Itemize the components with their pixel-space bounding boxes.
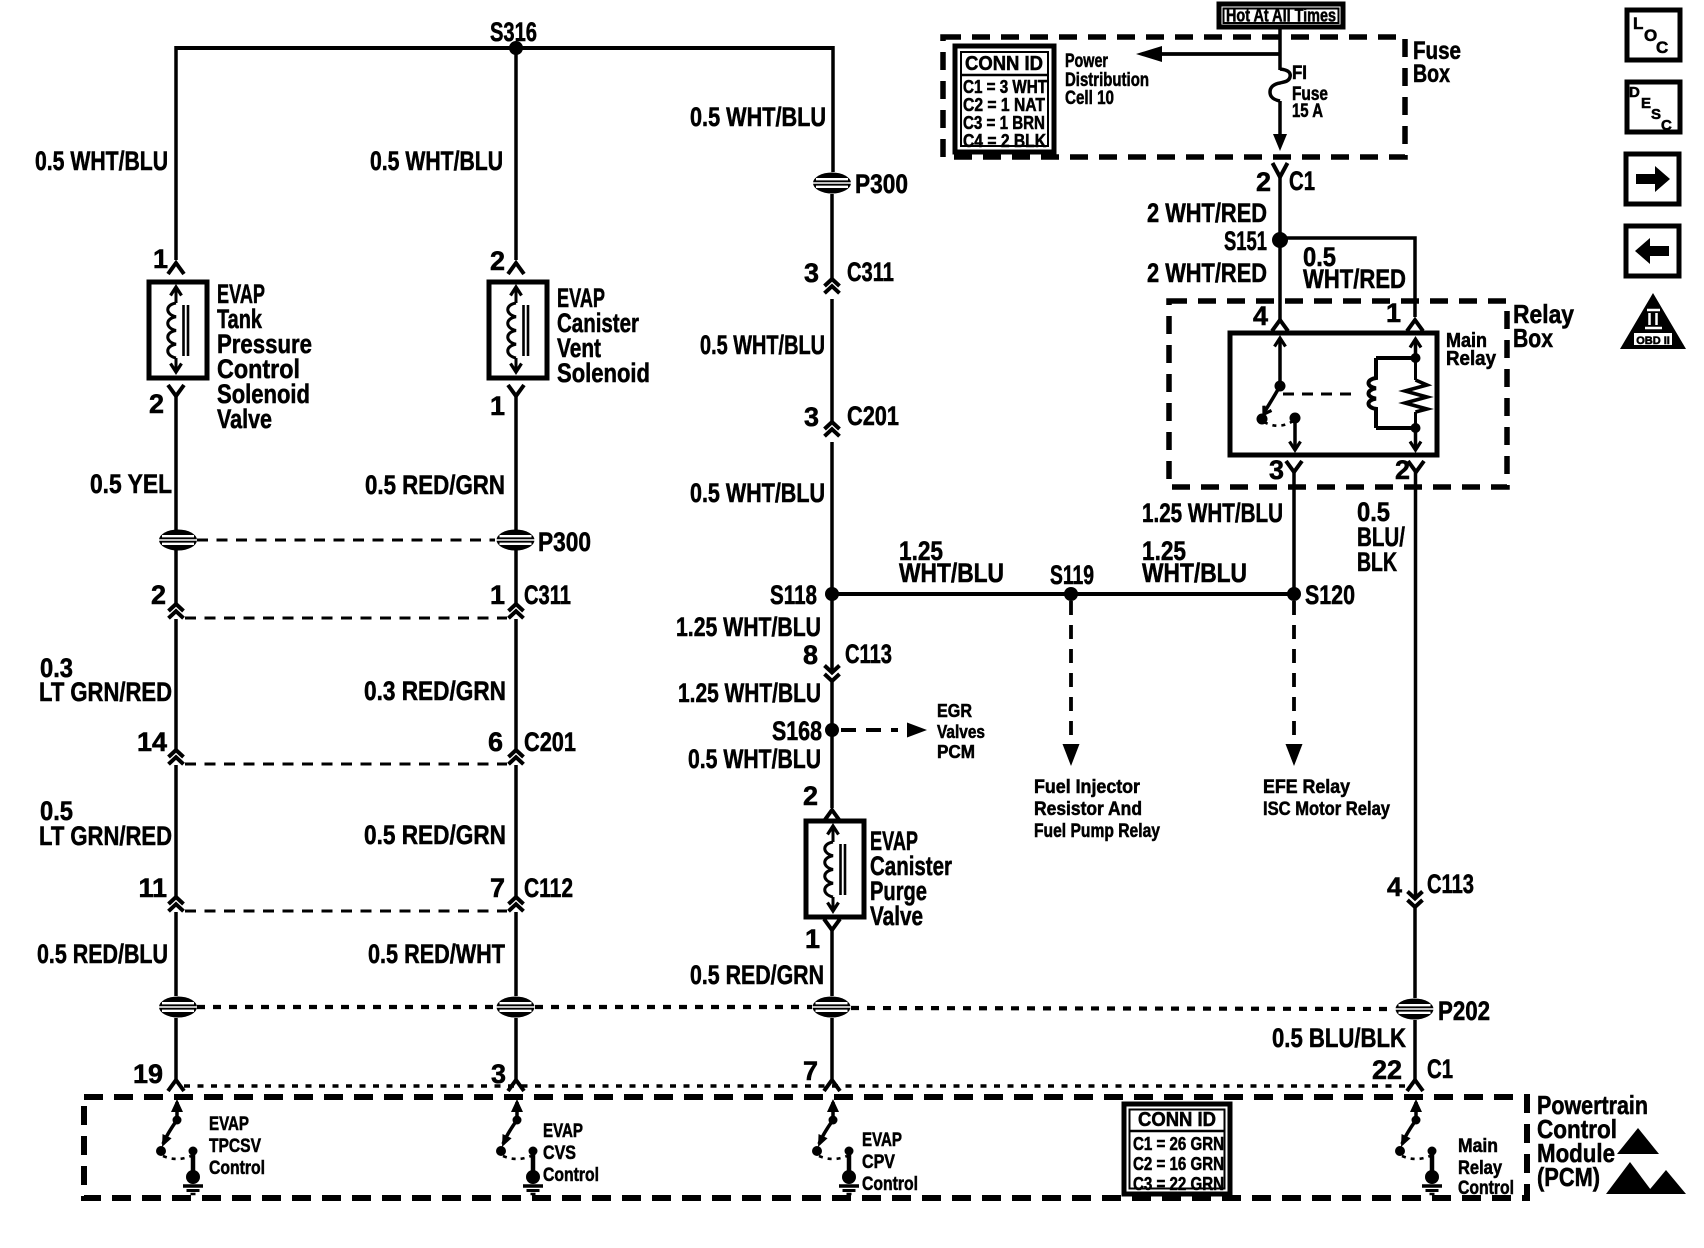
svg-text:2: 2 (1256, 167, 1271, 197)
svg-text:CVS: CVS (543, 1143, 576, 1164)
svg-text:S151: S151 (1224, 226, 1267, 256)
svg-text:C113: C113 (845, 639, 892, 669)
dashed line pairing left connector with P300 (197, 539, 495, 542)
wire 2 WHT/RED from C1 to S151 (1278, 176, 1282, 320)
svg-text:C: C (1661, 117, 1672, 134)
svg-text:1.25 WHT/BLU: 1.25 WHT/BLU (676, 612, 821, 642)
node S119 (1064, 587, 1078, 601)
svg-text:E: E (1641, 95, 1651, 112)
svg-text:4: 4 (1387, 872, 1402, 902)
svg-text:Valve: Valve (217, 404, 272, 434)
svg-text:Fuel Injector: Fuel Injector (1034, 777, 1141, 798)
svg-text:Valve: Valve (870, 901, 923, 931)
svg-text:C2 = 1 NAT: C2 = 1 NAT (963, 95, 1045, 115)
svg-text:3: 3 (804, 258, 819, 288)
wire 0.5 RED/GRN down to harness connector (830, 930, 834, 996)
svg-text:BLK: BLK (1357, 547, 1397, 577)
svg-text:0.5 RED/GRN: 0.5 RED/GRN (364, 820, 506, 850)
inline harness connector (right of center, on P202 dotted run) (813, 997, 851, 1018)
svg-text:7: 7 (803, 1056, 818, 1086)
wire 0.5 WHT/BLU from S168 to EVAP Canister Purge Valve (830, 730, 834, 808)
svg-text:C3 = 1 BRN: C3 = 1 BRN (963, 113, 1045, 133)
solenoid EVAP Canister Purge Valve (806, 821, 864, 917)
svg-text:C: C (1656, 38, 1668, 57)
svg-text:0.5 WHT/BLU: 0.5 WHT/BLU (370, 146, 503, 176)
wire: S316 bus down-left branch to EVAP Tank Pressure Control Solenoid Valve (174, 46, 178, 260)
svg-text:S: S (1651, 106, 1661, 123)
PCM driver switch EVAP CVS Control (515, 1102, 519, 1118)
wire 0.5 BLU/BLK from relay pin 2 down to C113 (1414, 472, 1418, 897)
branch wire 0.5 WHT/RED from S151 over to relay pin 1 (1280, 238, 1415, 317)
svg-text:(PCM): (PCM) (1537, 1162, 1600, 1192)
svg-text:LT GRN/RED: LT GRN/RED (39, 677, 172, 707)
PCM driver switch Main Relay Control (1414, 1102, 1418, 1118)
inline harness connector P300 (right column) (813, 173, 851, 194)
wire: 0.5 RED/GRN down to P300 (514, 396, 518, 603)
svg-text:1: 1 (1386, 298, 1401, 328)
svg-text:2: 2 (803, 781, 818, 811)
svg-text:3: 3 (804, 402, 819, 432)
solenoid EVAP Tank Pressure Control Solenoid Valve (149, 282, 207, 378)
dashed drop from S119 to Fuel Injector Resistor And Fuel Pump Relay (1069, 601, 1073, 742)
svg-text:C1 = 26 GRN: C1 = 26 GRN (1133, 1134, 1224, 1154)
svg-text:Control: Control (209, 1158, 265, 1179)
node S168 (825, 723, 839, 737)
svg-text:C112: C112 (524, 873, 573, 903)
dashed drop from S120 to EFE Relay / ISC Motor Relay (1292, 601, 1296, 742)
Fuse Box dashed enclosure (943, 37, 1405, 157)
PCM driver switch EVAP TPCSV Control (175, 1102, 179, 1118)
inline harness connector P202 (1396, 999, 1434, 1020)
wire: S316 down to EVAP Canister Vent Solenoid (514, 48, 518, 260)
Powertrain Control Module dashed enclosure (84, 1097, 1527, 1198)
svg-text:1.25 WHT/BLU: 1.25 WHT/BLU (1142, 498, 1283, 528)
svg-text:Hot At All Times: Hot At All Times (1226, 6, 1336, 26)
svg-text:C1 = 3 WHT: C1 = 3 WHT (963, 77, 1047, 97)
ESD warning triangles (1617, 1128, 1659, 1154)
arrow to Power Distribution (points left) (1158, 52, 1281, 56)
svg-text:1: 1 (490, 391, 505, 421)
svg-text:Solenoid: Solenoid (557, 358, 650, 388)
svg-text:Valves: Valves (937, 722, 985, 742)
svg-text:CPV: CPV (862, 1152, 895, 1173)
dotted harness run linking inline connectors to P202 (197, 1005, 495, 1009)
svg-text:C1: C1 (1427, 1054, 1453, 1084)
svg-text:Relay: Relay (1458, 1158, 1502, 1179)
svg-text:C1: C1 (1289, 166, 1315, 196)
dashed connector line C311 between columns (185, 617, 507, 620)
svg-text:C3 = 22 GRN: C3 = 22 GRN (1133, 1174, 1224, 1194)
svg-text:2 WHT/RED: 2 WHT/RED (1147, 198, 1267, 228)
Hot At All Times power tag (1219, 4, 1343, 27)
svg-text:0.5 WHT/BLU: 0.5 WHT/BLU (690, 102, 826, 132)
svg-text:0.5 RED/WHT: 0.5 RED/WHT (368, 939, 505, 969)
svg-text:0.5 RED/BLU: 0.5 RED/BLU (37, 939, 168, 969)
inline harness connector P300 (center column) (497, 530, 535, 551)
svg-text:2: 2 (149, 389, 164, 419)
margin icon DESC (1627, 82, 1680, 132)
svg-text:Cell 10: Cell 10 (1065, 88, 1114, 109)
relay resistor (parallel with coil) (1405, 380, 1427, 412)
svg-text:CONN ID: CONN ID (965, 53, 1043, 75)
svg-text:S316: S316 (490, 17, 537, 47)
svg-text:CONN ID: CONN ID (1138, 1109, 1216, 1131)
inline harness connector (center, on P202 dotted run) (497, 997, 535, 1018)
svg-text:P300: P300 (855, 169, 908, 199)
svg-text:0.5 YEL: 0.5 YEL (90, 469, 172, 499)
node S118 (825, 587, 839, 601)
svg-text:7: 7 (490, 873, 505, 903)
wire: top bus corner down the EVAP CPV column (831, 46, 835, 172)
svg-text:P300: P300 (538, 527, 591, 557)
svg-text:EVAP: EVAP (862, 1130, 902, 1151)
svg-text:8: 8 (803, 640, 818, 670)
svg-text:Control: Control (862, 1174, 918, 1195)
wire below P300 to C311 (830, 194, 834, 278)
relay switch (movable contact) (1278, 340, 1282, 386)
wire 0.5 BLU/BLK from P202 to PCM pin 22 (1413, 1020, 1417, 1080)
svg-text:1.25 WHT/BLU: 1.25 WHT/BLU (678, 678, 821, 708)
svg-text:0.5 BLU/BLK: 0.5 BLU/BLK (1272, 1023, 1406, 1053)
svg-text:1: 1 (805, 924, 820, 954)
wire below C113 to P202 (1413, 907, 1417, 998)
svg-text:ISC Motor Relay: ISC Motor Relay (1263, 799, 1390, 820)
svg-text:S120: S120 (1305, 580, 1355, 610)
relay mechanical dashed link (1283, 393, 1358, 396)
fuse FI Fuse 15 A (squiggle symbol) (1270, 69, 1290, 101)
svg-text:11: 11 (138, 873, 167, 903)
top bus wire from EVAP TPCSV column to EVAP CPV column (176, 46, 833, 50)
svg-text:Resistor And: Resistor And (1034, 799, 1142, 820)
margin icon OBD II triangle (1620, 293, 1686, 349)
svg-text:3: 3 (1269, 455, 1284, 485)
svg-text:L: L (1633, 14, 1643, 33)
relay coil output to pin 2 (1414, 428, 1418, 448)
svg-text:15 A: 15 A (1292, 101, 1323, 122)
dashed connector line C112 between columns (185, 910, 507, 913)
CONN ID table (fuse box) (955, 46, 1054, 152)
svg-text:C201: C201 (524, 727, 576, 757)
inline harness connector (left, pairs with P300) (159, 530, 197, 551)
svg-text:1: 1 (153, 244, 168, 274)
svg-text:1: 1 (490, 580, 505, 610)
svg-text:Relay: Relay (1446, 348, 1497, 370)
wire 0.5 WHT/BLU to S118 (830, 442, 834, 594)
svg-text:WHT/BLU: WHT/BLU (899, 558, 1004, 588)
svg-text:2: 2 (1395, 455, 1410, 485)
wire: 0.5 YEL from pin 2 down to harness connector (174, 396, 178, 603)
margin icon back arrow (1626, 226, 1679, 276)
svg-text:0.5 WHT/BLU: 0.5 WHT/BLU (700, 330, 825, 360)
svg-text:S168: S168 (772, 716, 822, 746)
svg-text:EFE Relay: EFE Relay (1263, 777, 1350, 798)
svg-text:PCM: PCM (937, 742, 975, 762)
svg-text:Box: Box (1513, 323, 1553, 353)
svg-text:2 WHT/RED: 2 WHT/RED (1147, 258, 1267, 288)
svg-text:22: 22 (1372, 1055, 1402, 1085)
wire 1.25 WHT/BLU to S168 (830, 681, 834, 730)
svg-text:EGR: EGR (937, 701, 972, 721)
svg-text:C311: C311 (524, 580, 571, 610)
svg-text:Fuel Pump Relay: Fuel Pump Relay (1034, 821, 1160, 842)
relay coil branch (1414, 341, 1418, 358)
svg-text:Control: Control (1458, 1178, 1514, 1199)
solenoid EVAP Canister Vent Solenoid (489, 282, 547, 378)
svg-text:0.5 WHT/BLU: 0.5 WHT/BLU (35, 146, 168, 176)
svg-text:EVAP: EVAP (543, 1121, 583, 1142)
svg-text:TPCSV: TPCSV (209, 1136, 261, 1157)
svg-text:19: 19 (133, 1059, 163, 1089)
svg-text:14: 14 (137, 727, 167, 757)
svg-text:Control: Control (543, 1165, 599, 1186)
svg-text:2: 2 (490, 246, 505, 276)
wire 1.25 WHT/BLU from relay pin 3 down to S120 (1292, 472, 1296, 594)
svg-text:C4 = 2 BLK: C4 = 2 BLK (963, 131, 1046, 151)
svg-text:C113: C113 (1427, 869, 1474, 899)
svg-text:Box: Box (1413, 60, 1450, 88)
svg-text:FI: FI (1292, 63, 1307, 84)
svg-text:0.3 RED/GRN: 0.3 RED/GRN (364, 676, 506, 706)
svg-text:0.5 WHT/BLU: 0.5 WHT/BLU (688, 744, 821, 774)
svg-text:D: D (1629, 84, 1640, 101)
svg-text:EVAP: EVAP (209, 1114, 249, 1135)
svg-text:OBD II: OBD II (1636, 335, 1670, 347)
node S120 (1287, 587, 1301, 601)
margin icon forward arrow (1626, 154, 1679, 204)
relay output to pin 3 (1293, 418, 1297, 448)
svg-text:S119: S119 (1050, 560, 1094, 590)
CONN ID table (PCM) (1124, 1104, 1230, 1194)
Relay Box dashed enclosure (1169, 301, 1507, 487)
svg-text:C2 = 16 GRN: C2 = 16 GRN (1133, 1154, 1224, 1174)
svg-text:WHT/BLU: WHT/BLU (1142, 558, 1247, 588)
svg-text:0.5 RED/GRN: 0.5 RED/GRN (690, 960, 824, 990)
bus wire S118 to S120 (1.25 WHT/BLU) (832, 592, 1294, 596)
inline harness connector (left, on P202 dotted run) (159, 997, 197, 1018)
svg-text:0.5 WHT/BLU: 0.5 WHT/BLU (690, 478, 825, 508)
Main Relay body (1230, 333, 1437, 455)
margin icon LOC (1627, 10, 1680, 60)
svg-text:4: 4 (1253, 301, 1268, 331)
node S316 junction dot (509, 41, 523, 55)
PCM driver switch EVAP CPV Control (831, 1102, 835, 1118)
wire from Hot At All Times down into fuse (1278, 27, 1282, 70)
dotted PCM connector interface line (184, 1084, 1406, 1087)
svg-text:2: 2 (151, 580, 166, 610)
svg-text:Power: Power (1065, 51, 1108, 72)
relay switch dotted throw arc (1264, 421, 1293, 426)
svg-text:0.5 RED/GRN: 0.5 RED/GRN (365, 470, 505, 500)
node S151 (1272, 232, 1288, 248)
svg-text:WHT/RED: WHT/RED (1303, 264, 1406, 294)
svg-text:LT GRN/RED: LT GRN/RED (39, 821, 172, 851)
dashed connector line C201 between columns (185, 763, 507, 766)
dashed arrow from S168 to EGR Valves / PCM (841, 728, 898, 732)
wire below S118 (1.25 WHT/BLU) to C113 (830, 594, 834, 671)
svg-text:C201: C201 (847, 401, 899, 431)
svg-text:C311: C311 (847, 257, 894, 287)
svg-text:S118: S118 (770, 580, 817, 610)
wire 0.5 WHT/BLU to C201 (830, 299, 834, 421)
svg-text:6: 6 (488, 727, 503, 757)
svg-text:P202: P202 (1438, 996, 1490, 1026)
svg-text:Main: Main (1458, 1136, 1498, 1157)
